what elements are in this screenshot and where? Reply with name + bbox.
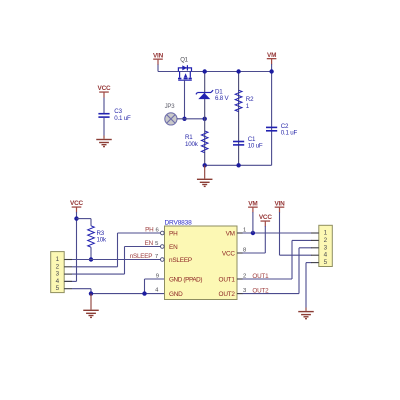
junction dot R3 bottom on nSLEEP <box>89 257 93 261</box>
wire OUT1 net <box>243 240 312 279</box>
svg-text:R1: R1 <box>185 134 193 141</box>
power VIN supply symbol <box>153 52 164 65</box>
wire VM stub <box>271 64 273 72</box>
svg-text:0.1 uF: 0.1 uF <box>281 130 298 137</box>
svg-text:OUT2: OUT2 <box>252 287 269 294</box>
wire R2/C1 branch vertical <box>238 72 240 166</box>
ground under bottom rail <box>197 165 213 187</box>
wire Q1 gate down <box>184 80 186 119</box>
power VM supply symbol (top) <box>267 52 277 65</box>
svg-text:EN: EN <box>145 240 154 247</box>
svg-text:6.8 V: 6.8 V <box>215 95 230 102</box>
transistor Q1 <box>178 58 192 81</box>
svg-text:2: 2 <box>243 273 246 279</box>
svg-text:VM: VM <box>248 200 257 207</box>
label pin1 <box>243 227 246 233</box>
wire top rail VIN-Q1-VM <box>158 72 272 166</box>
junction dot VM supply <box>251 231 255 235</box>
svg-text:7: 7 <box>155 254 158 260</box>
wire VIN stub <box>157 65 159 72</box>
power VCC supply symbol (bottom-left) <box>70 200 83 212</box>
svg-text:OUT2: OUT2 <box>219 291 236 298</box>
svg-text:PH: PH <box>169 230 178 237</box>
wire JP3 to D1 branch <box>177 118 205 120</box>
resistor R3 <box>88 226 107 247</box>
label nSLEEP net <box>130 253 158 260</box>
svg-text:VIN: VIN <box>153 52 164 59</box>
label EN net <box>145 240 160 247</box>
capacitor C1 <box>233 136 263 149</box>
label pin3 OUT2 <box>243 287 269 294</box>
svg-text:Q1: Q1 <box>180 58 188 64</box>
wire VM net <box>243 232 312 234</box>
wire VCC down to pin4 <box>64 212 76 281</box>
wire OUT2 net <box>243 248 312 294</box>
junction dot C1 bottom <box>236 163 240 167</box>
power VM supply symbol (bottom) <box>248 200 258 212</box>
svg-text:VCC: VCC <box>70 200 83 207</box>
svg-text:GND: GND <box>169 291 183 298</box>
junction dot R1 at bottom rail <box>203 163 207 167</box>
wire GND net pin5 to IC <box>72 279 165 294</box>
junction dot gate-JP3 <box>182 117 186 121</box>
power VCC supply symbol (bottom-right) <box>259 214 272 226</box>
wire nSLEEP net pin1 to IC pin7 <box>72 259 161 261</box>
wire VCC to R3 <box>77 219 92 260</box>
IC input pin bubbles <box>161 231 165 261</box>
resistor R2 <box>235 90 254 111</box>
svg-text:VM: VM <box>226 230 235 237</box>
wire D1/R1 branch vertical <box>204 72 206 166</box>
label pin2 OUT1 <box>243 273 269 280</box>
svg-text:9: 9 <box>156 273 159 279</box>
wire VCC to IC pin8 <box>243 226 266 253</box>
wire EN net pin3 to IC pin5 <box>72 247 161 275</box>
wire PH net pin2 to IC pin6 <box>72 233 161 267</box>
junction dot VM at rail <box>269 69 273 73</box>
svg-text:VCC: VCC <box>222 250 235 257</box>
power VIN supply symbol (bottom) <box>274 200 285 212</box>
svg-text:100k: 100k <box>185 141 199 148</box>
connector JP2 pin stubs <box>311 233 319 263</box>
IC U1 DRV8838 <box>165 219 238 299</box>
svg-text:JP3: JP3 <box>165 104 176 110</box>
wire C3 to ground <box>103 118 105 136</box>
svg-text:DRV8838: DRV8838 <box>165 219 193 226</box>
connector JP1 left header <box>51 252 64 293</box>
svg-text:PH: PH <box>145 227 154 234</box>
zener diode D1 <box>196 88 230 102</box>
svg-text:nSLEEP: nSLEEP <box>169 257 192 264</box>
junction dot JP3 wire at D1 branch <box>203 117 207 121</box>
wire VM supply stub <box>252 212 254 233</box>
svg-text:10 uF: 10 uF <box>248 143 263 150</box>
wire VIN to connector pin4 <box>280 212 312 255</box>
junction dot D1 branch at rail <box>203 69 207 73</box>
connector JP2 right header <box>319 225 333 266</box>
ground bottom-left <box>83 294 99 319</box>
ground bottom-right <box>298 308 314 320</box>
resistor R1 <box>185 131 208 153</box>
svg-text:0.1 uF: 0.1 uF <box>114 115 131 122</box>
IC right pin stubs <box>237 233 243 294</box>
svg-text:VCC: VCC <box>259 214 272 221</box>
label pin4 <box>155 287 159 293</box>
svg-text:GND (PPAD): GND (PPAD) <box>169 276 202 283</box>
svg-text:VIN: VIN <box>274 200 285 207</box>
capacitor C3 <box>98 108 131 122</box>
svg-text:OUT1: OUT1 <box>219 276 236 283</box>
wire VCC to C3 <box>103 98 105 114</box>
svg-text:10k: 10k <box>97 237 107 244</box>
svg-text:1: 1 <box>243 227 246 233</box>
wire GND right connector pin5 <box>306 263 312 308</box>
label pin8 <box>243 247 247 253</box>
svg-text:EN: EN <box>169 244 178 251</box>
jumper JP3 <box>165 104 177 125</box>
label pin9 <box>156 273 159 279</box>
svg-text:VM: VM <box>267 52 276 59</box>
svg-text:VCC: VCC <box>98 85 111 92</box>
junction dot GND pin9 branch <box>142 291 146 295</box>
junction dot GND at ground <box>89 291 93 295</box>
junction dot R2 top <box>236 69 240 73</box>
ground under C3 <box>96 136 112 148</box>
svg-text:nSLEEP: nSLEEP <box>130 253 153 260</box>
junction dot VCC/R3 <box>74 216 78 220</box>
connector JP1 pin stubs <box>64 260 72 289</box>
svg-text:OUT1: OUT1 <box>252 273 269 280</box>
power VCC supply symbol (top-left) <box>98 85 111 97</box>
label PH net <box>145 227 159 234</box>
capacitor C2 <box>266 123 297 136</box>
